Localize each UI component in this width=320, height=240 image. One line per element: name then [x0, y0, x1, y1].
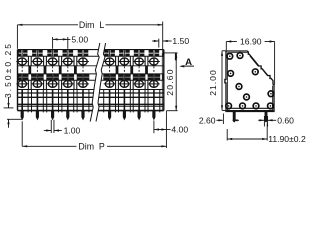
svg-text:5.00: 5.00	[71, 34, 88, 44]
svg-text:11.90±0.2: 11.90±0.2	[268, 134, 306, 144]
svg-text:Dim L: Dim L	[79, 20, 105, 30]
svg-text:0.60: 0.60	[277, 115, 294, 125]
svg-text:Dim P: Dim P	[78, 141, 105, 151]
svg-text:2.60: 2.60	[199, 115, 216, 125]
svg-text:16.90: 16.90	[240, 37, 262, 47]
svg-text:20.60: 20.60	[165, 68, 175, 96]
svg-text:1.00: 1.00	[64, 126, 81, 136]
svg-text:21.00: 21.00	[208, 69, 218, 96]
svg-text:4.00: 4.00	[171, 125, 188, 135]
svg-text:1.50: 1.50	[172, 36, 189, 46]
svg-text:3.50±0.25: 3.50±0.25	[3, 42, 13, 98]
